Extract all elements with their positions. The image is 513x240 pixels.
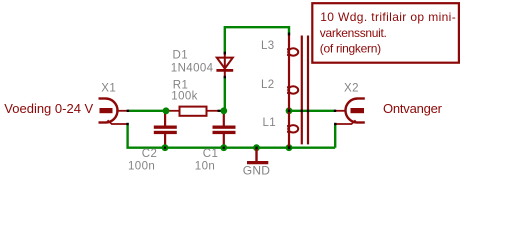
svg-text:10 Wdg. trifilair op mini-: 10 Wdg. trifilair op mini- (320, 10, 456, 24)
connector X1 (99, 99, 128, 125)
svg-text:varkenssnuit.: varkenssnuit. (320, 26, 387, 40)
svg-text:100n: 100n (128, 161, 155, 173)
junction dot R1 left / C2 top (163, 107, 170, 114)
svg-text:L2: L2 (261, 79, 275, 91)
D1 cathode pin endpoint (224, 76, 226, 79)
connector X2 (336, 99, 365, 125)
note box (312, 3, 459, 63)
resistor R1 (169, 107, 222, 116)
wire: diode cathode up, over to transformer top (225, 27, 289, 52)
X1 pin1 endpoint (127, 110, 129, 112)
svg-text:Ontvanger: Ontvanger (383, 101, 443, 116)
svg-text:(of ringkern): (of ringkern) (320, 41, 381, 55)
capacitor C1 (213, 111, 236, 148)
transformer tap junction dark center (288, 110, 290, 112)
R1 right lead dark segment (218, 110, 221, 112)
svg-text:R1: R1 (173, 79, 189, 91)
wire: X2 pin2 down to ground bus (334, 124, 336, 147)
junction dot transformer tap (286, 107, 293, 114)
wire: transformer tap to X2 pin1 (289, 110, 335, 112)
capacitor C2 (154, 111, 177, 148)
core crossing dark overlap 2 (307, 110, 309, 113)
transformer core line 1 (301, 36, 303, 145)
svg-text:10n: 10n (195, 161, 215, 173)
X2 pin1 endpoint (334, 110, 336, 112)
svg-text:L3: L3 (261, 40, 275, 52)
junction dot GND (253, 144, 260, 151)
svg-text:GND: GND (243, 163, 270, 177)
transformer top pin endpoint (288, 33, 290, 36)
junction dot transformer bottom (286, 144, 293, 151)
svg-text:X2: X2 (344, 83, 359, 95)
svg-text:C2: C2 (142, 148, 158, 160)
wire: X1 pin2 down and bottom ground bus (128, 125, 336, 148)
dark centers of bottom junction dots (164, 147, 166, 149)
X1 pin2 endpoint (126, 123, 128, 125)
wire: node to diode anode (224, 78, 226, 111)
junction dot C1 bottom (220, 144, 227, 151)
svg-text:Voeding 0-24 V: Voeding 0-24 V (4, 101, 93, 116)
svg-text:X1: X1 (101, 83, 116, 95)
svg-text:100k: 100k (171, 91, 198, 103)
diode D1 (216, 53, 233, 78)
transformer winding column L3/L2/L1 (287, 35, 298, 148)
D1 anode pin endpoint (224, 52, 226, 55)
wire: X1 pin1 to R1 left node (129, 110, 165, 112)
svg-text:1N4004: 1N4004 (171, 62, 214, 74)
svg-text:L1: L1 (263, 117, 277, 129)
ground symbol (247, 148, 268, 163)
junction dot C2 bottom (162, 144, 169, 151)
transformer bottom junction dark center (288, 146, 291, 149)
junction dot R1 right / C1 top / D1 (220, 107, 227, 114)
svg-text:C1: C1 (203, 148, 219, 160)
R1 left lead dark segment (164, 110, 166, 112)
core crossing dark overlap 1 (301, 110, 303, 113)
X2 pin2 endpoint (334, 123, 336, 125)
transformer core line 2 (307, 36, 309, 145)
svg-text:D1: D1 (173, 50, 189, 62)
